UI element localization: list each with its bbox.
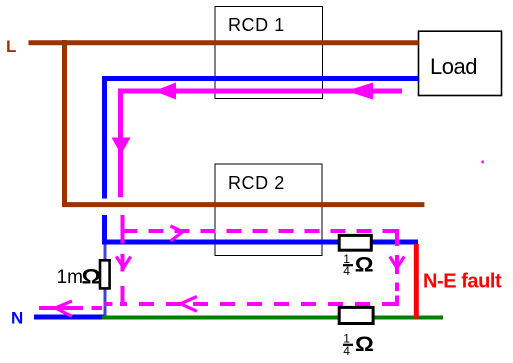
svg-text:Load: Load — [430, 54, 477, 79]
svg-text:Ω: Ω — [82, 264, 102, 288]
arrow chevron down on right vertical — [390, 257, 404, 269]
arrow solid left 1 — [154, 83, 176, 100]
arrow chevron right on top dashed — [171, 226, 183, 241]
svg-text:Ω: Ω — [355, 252, 374, 276]
label quarter ohm neutral — [343, 252, 374, 278]
svg-text:N-E fault: N-E fault — [423, 270, 502, 292]
wire L branch vertical (brown) — [62, 40, 67, 207]
arrow chevron down on left vertical — [116, 257, 130, 268]
stray magenta mark — [482, 161, 484, 164]
wire fault dashed bottom right (magenta) — [120, 302, 397, 306]
wire fault dashed left vertical (magenta) — [121, 215, 125, 304]
wire L lower horizontal (brown) — [62, 202, 424, 207]
svg-text:Ω: Ω — [355, 332, 374, 356]
wire load current solid path (magenta) — [121, 91, 403, 197]
box RCD 2 — [215, 164, 322, 256]
svg-text:RCD 2: RCD 2 — [228, 173, 285, 193]
wire L top horizontal (brown) — [29, 40, 419, 45]
svg-text:4: 4 — [343, 344, 350, 358]
wire N-E fault vertical (red) — [414, 244, 419, 319]
svg-text:1m: 1m — [57, 267, 83, 288]
wire fault dashed top horizontal (magenta) — [123, 229, 398, 233]
resistor quarter ohm earth body — [339, 307, 373, 323]
svg-text:4: 4 — [343, 264, 350, 278]
wire earth (green) — [102, 316, 443, 320]
wire N lower path (blue) — [105, 215, 419, 242]
wire resistor lead vertical (slate blue) — [104, 245, 107, 319]
svg-text:RCD 1: RCD 1 — [228, 15, 285, 35]
wire N bottom left (blue) — [34, 315, 104, 320]
box Load — [419, 31, 502, 95]
arrow solid down — [112, 138, 131, 155]
box RCD 1 — [215, 7, 323, 99]
resistor R1 1m ohm body — [100, 260, 110, 288]
arrow chevron left on bottom left dashed — [55, 301, 72, 316]
resistor quarter ohm neutral body — [339, 235, 371, 250]
wire N upper path (blue) — [105, 79, 419, 199]
svg-text:L: L — [6, 37, 16, 56]
wire fault dashed bottom left (magenta) — [39, 306, 102, 310]
label quarter ohm earth — [343, 332, 374, 358]
arrow solid left 2 — [346, 83, 373, 100]
wire fault dashed right vertical (magenta) — [395, 229, 399, 306]
arrow chevron left on bottom right dashed — [181, 297, 197, 312]
svg-text:N: N — [11, 309, 23, 328]
